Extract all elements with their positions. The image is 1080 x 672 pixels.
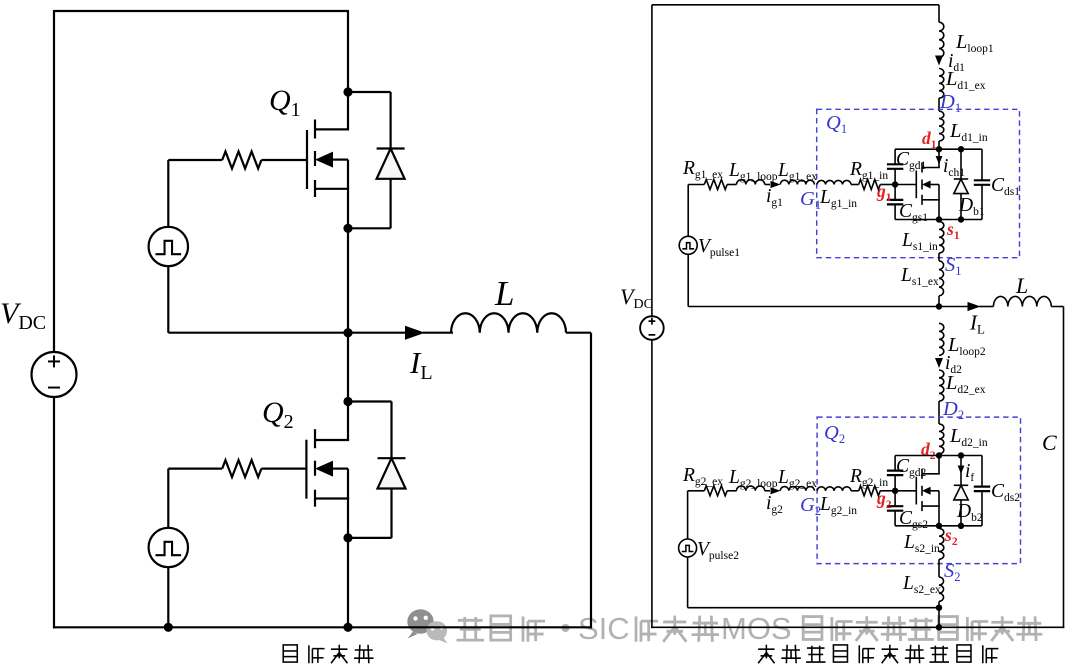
wire: Q1 diode branch bottom	[348, 179, 391, 229]
wire: R_g1_ex to L_g1_loop	[727, 184, 736, 186]
arrow i_d2	[935, 358, 943, 368]
wire: Q2 pulse source upper leg	[167, 469, 169, 528]
node: gate junction 1	[892, 181, 898, 187]
inductor L_s1_ex	[939, 261, 944, 296]
inductor L_d1_in	[939, 111, 944, 141]
transistor M1 source lead	[938, 185, 940, 220]
svg-text:C: C	[1042, 430, 1057, 455]
watermark SIC	[578, 611, 630, 646]
caption 半桥拓扑 (left)	[283, 645, 373, 664]
label g1 (red)	[876, 181, 892, 204]
label I_L (right circuit)	[969, 311, 985, 337]
label i_d1	[948, 51, 965, 74]
wire: Q2 diode branch top	[348, 402, 392, 459]
node: V_pulse2 return junction	[936, 605, 942, 611]
label L_loop2	[947, 334, 986, 358]
transistor Q1 body arrow	[315, 152, 348, 168]
label L_d2_in	[949, 425, 988, 449]
label Q2	[262, 396, 294, 433]
inductor L_g1_in	[817, 180, 851, 184]
node: Q1 source junction	[343, 224, 352, 233]
label Q1	[269, 84, 301, 121]
svg-text:L: L	[1015, 273, 1028, 298]
inductor L_d1_ex	[939, 69, 944, 99]
transistor M2 source lead	[938, 491, 940, 526]
watermark 公众号	[457, 616, 546, 642]
wire: C_ds branch lower 2	[981, 491, 983, 526]
wire: L_s2_in to L_s2_ex	[938, 559, 940, 577]
label V_DC (right circuit)	[620, 284, 653, 312]
label L_loop1	[955, 31, 994, 55]
wire: Q1 gate wire left	[168, 159, 222, 161]
wire: Q2 gate wire right	[261, 468, 306, 470]
wire: gate node to gate bar 1	[895, 184, 916, 186]
inductor L_s1_in	[939, 222, 944, 254]
transistor Q1 drain lead	[315, 92, 349, 129]
wire: Q2 gate wire left	[168, 468, 222, 470]
wire: trunk top	[938, 5, 940, 22]
resistor R_g1_ex	[704, 180, 727, 190]
wire: Q1 pulse source lower leg	[168, 266, 348, 333]
node: Q1 drain junction	[343, 87, 352, 96]
label Q2 (blue)	[824, 422, 845, 446]
wire: left circuit bottom rail	[53, 626, 592, 628]
diode D1 body (Q1 antiparallel)	[377, 149, 405, 179]
wire: gate-source leg 1	[894, 204, 896, 219]
node: diode bottom junction 2	[958, 523, 964, 529]
node: left circuit midpoint junction	[343, 328, 352, 337]
wire: arrow to inductor	[423, 332, 453, 334]
inductor L_g2_ex	[780, 487, 814, 491]
node: diode top junction 2	[958, 452, 964, 458]
label g2 (red)	[876, 488, 892, 511]
label L (left circuit)	[494, 274, 514, 313]
resistor R_g2_ex	[704, 486, 727, 496]
wire: drain lead 1	[938, 149, 940, 167]
label R_g2_in	[849, 466, 888, 489]
label V_pulse1	[698, 236, 740, 259]
resistor R_g1_in	[859, 180, 881, 190]
label d1 (red)	[922, 128, 937, 151]
wire: L_s2_ex to return node	[938, 601, 940, 607]
transistor M1 body arrow	[922, 181, 939, 189]
wire: V_pulse1 return to midpoint	[688, 306, 939, 308]
transistor M1 gate bar	[915, 171, 917, 199]
pulse source (Q2 gate drive)	[149, 528, 188, 567]
node: s junction 1	[936, 216, 942, 222]
diode D2 body (Q2 antiparallel)	[378, 458, 406, 488]
transistor Q2 body arrow	[315, 461, 348, 477]
wire: right circuit left rail lower	[651, 339, 653, 628]
wire: gate node to gate bar 2	[895, 490, 916, 492]
label C_gs2	[899, 508, 928, 531]
wire: Q1 diode branch top	[348, 92, 391, 149]
resistor Q2 gate	[222, 460, 261, 477]
wire: right circuit right rail	[1063, 307, 1065, 629]
node: diode bottom junction 1	[958, 216, 964, 222]
wire: R_g2_in to gate node	[880, 490, 895, 492]
voltage source V_DC (left circuit)	[32, 352, 77, 397]
capacitor C_gd2	[887, 471, 903, 476]
label V_pulse2	[697, 539, 739, 562]
node: Q2 source junction	[343, 533, 352, 542]
label L_d1_in	[949, 120, 988, 144]
wire: midpoint to load arrow	[348, 332, 410, 334]
wire: drain lead 2	[938, 456, 940, 474]
capacitor C_gd1	[887, 164, 903, 169]
resistor R_g2_in	[859, 486, 881, 496]
label C (right circuit)	[1042, 430, 1057, 455]
label C_ds1	[991, 175, 1020, 198]
wire: model top rail 1	[895, 148, 982, 150]
node: Q2 pulse return junction	[164, 623, 173, 632]
label D_b2	[956, 501, 983, 524]
label L_d1_ex	[945, 68, 986, 92]
wire: diode branch upper 1	[960, 149, 962, 179]
label G1 (blue)	[800, 188, 821, 212]
wire: to gate node 2	[894, 475, 896, 506]
node: d junction 2	[936, 452, 942, 458]
label D2 (blue)	[942, 398, 964, 422]
label I_L (left circuit)	[409, 345, 433, 384]
label R_g1_ex	[682, 158, 723, 181]
wire: to arrow i_g1	[765, 184, 770, 186]
wire: gate2 lead-in	[688, 490, 705, 492]
transistor M1 source stub	[922, 199, 940, 201]
label s1 (red)	[946, 219, 960, 242]
inductor L (right circuit load)	[993, 296, 1051, 306]
wire: gate-drain leg 2	[894, 456, 896, 471]
transistor Q2 gate bar	[305, 440, 307, 499]
transistor Q2 source lead	[315, 469, 349, 538]
label i_g1	[766, 186, 783, 209]
transistor Q1 source lead	[315, 160, 349, 229]
inductor L_g1_ex	[780, 180, 814, 184]
svg-text:MOS: MOS	[721, 611, 792, 646]
wire: R_g1_in to gate node	[880, 184, 895, 186]
wire: L_s1_in to L_s1_ex	[938, 253, 940, 261]
node: Q2 source bottom junction	[343, 623, 352, 632]
node: s junction 2	[936, 523, 942, 529]
wire: L_g2_in to R_g2_in	[851, 490, 859, 492]
arrow i_d1	[935, 56, 943, 66]
label L_g1_loop	[728, 160, 778, 183]
label L_g2_loop	[728, 467, 778, 490]
capacitor C_ds2	[974, 487, 990, 492]
wire: midpoint to arrow	[939, 306, 968, 308]
arrow I_L (right circuit)	[968, 302, 981, 311]
transistor M2 gate bar	[915, 477, 917, 505]
label V_DC (left circuit)	[0, 297, 46, 334]
node: right circuit midpoint	[936, 303, 942, 309]
wire: diode branch lower 1	[960, 194, 962, 220]
label S2 (blue)	[944, 560, 961, 584]
transistor M2 drain stub	[922, 473, 940, 475]
label L_g1_ex	[777, 160, 817, 183]
wire: L_g1_in to R_g1_in	[851, 184, 859, 186]
wire: V_pulse1 lower leg	[687, 254, 689, 306]
pulse source V_pulse1	[679, 236, 697, 254]
wire: left circuit left rail lower	[53, 397, 55, 628]
wire: to gate node 1	[894, 169, 896, 200]
wire: Q1 pulse source upper leg	[167, 160, 169, 227]
wire: Q2 pulse source lower leg	[167, 567, 169, 627]
dashed box Q1	[817, 109, 1020, 257]
watermark MOS	[721, 611, 792, 646]
label R_g2_ex	[682, 465, 723, 488]
wire: trunk to L_d2_in	[938, 401, 940, 424]
arrow I_L (left circuit)	[405, 326, 425, 340]
capacitor C_ds1	[974, 180, 990, 185]
label i_d2	[945, 353, 962, 376]
dashed box Q2	[817, 417, 1020, 563]
voltage source V_DC (right circuit)	[640, 316, 664, 340]
node: gate junction 2	[892, 488, 898, 494]
wire: R_g2_ex to L_g2_loop	[727, 490, 736, 492]
wire: C_ds branch upper 2	[981, 456, 983, 487]
label L_s1_in	[901, 230, 938, 253]
wire: V_pulse2 upper leg	[687, 491, 689, 539]
resistor Q1 gate	[222, 152, 261, 169]
inductor L_loop1	[939, 22, 944, 57]
label D1 (blue)	[939, 91, 961, 115]
inductor L_s2_ex	[939, 577, 944, 601]
capacitor C_gs2	[887, 506, 903, 511]
wire: trunk to d2	[938, 454, 940, 456]
wire: Q1 drain from top rail	[347, 11, 349, 92]
transistor M2 body arrow	[922, 487, 939, 495]
label i_f	[965, 461, 974, 484]
wire: trunk to bottom rail	[938, 608, 940, 628]
wire: V_pulse2 lower leg	[687, 557, 689, 608]
label L_g2_in	[819, 494, 857, 517]
label i_ch1	[943, 156, 965, 179]
arrow i_g2	[771, 487, 781, 494]
transistor Q1 channel segments	[314, 120, 316, 198]
label L_d2_ex	[945, 372, 986, 396]
label C_gs1	[899, 201, 928, 224]
label C_ds2	[991, 481, 1020, 504]
label G2 (blue)	[800, 494, 821, 518]
wire: gate-drain leg 1	[894, 149, 896, 164]
wire: Q2 diode branch bottom	[348, 489, 392, 538]
transistor M2 channel segments	[921, 469, 923, 511]
wire: diode branch lower 2	[960, 500, 962, 526]
arrow i_f	[958, 466, 965, 475]
inductor L_g2_loop	[737, 486, 765, 491]
node: d junction 1	[936, 146, 942, 152]
watermark 管及功率模块的应用	[803, 616, 1042, 641]
capacitor C_gs1	[887, 200, 903, 205]
label d2 (red)	[921, 439, 936, 462]
wire: trunk to d1	[938, 141, 940, 149]
wire: V_pulse2 return	[688, 607, 939, 609]
label D_b1	[958, 195, 985, 218]
pulse source V_pulse2	[679, 539, 697, 557]
label L_s2_ex	[902, 573, 941, 596]
pulse source (Q1 gate drive)	[149, 227, 188, 266]
diode D_b1	[954, 179, 968, 194]
transistor M1 channel segments	[921, 163, 923, 205]
label C_gd2	[896, 456, 927, 479]
wire: C_ds branch upper 1	[981, 149, 983, 180]
label S1 (blue)	[945, 254, 962, 278]
wire: right circuit bottom rail	[651, 626, 1064, 628]
label i_g2	[766, 493, 783, 516]
svg-text:L: L	[494, 274, 514, 313]
inductor L_g1_loop	[737, 180, 765, 185]
svg-text:SIC: SIC	[578, 611, 630, 646]
wire: L_s1_ex to midpoint	[938, 296, 940, 307]
inductor L (left circuit load)	[451, 313, 566, 332]
transistor M1 drain stub	[922, 167, 940, 169]
wire: right circuit left rail upper	[651, 5, 653, 317]
wire: left circuit top rail	[54, 10, 349, 12]
wire: gate1 lead-in	[688, 184, 704, 186]
inductor L_g2_in	[817, 487, 851, 491]
transistor Q2 drain lead	[315, 402, 349, 441]
wire: trunk between	[938, 98, 940, 111]
label L (right circuit)	[1015, 273, 1028, 298]
transistor M2 source stub	[922, 505, 940, 507]
label Q1 (blue)	[826, 112, 847, 136]
diode D_b2	[954, 485, 968, 500]
watermark logo	[407, 609, 447, 643]
inductor L_d2_ex	[939, 370, 944, 401]
wire: left circuit right rail	[590, 333, 592, 629]
node: Q2 drain junction	[343, 397, 352, 406]
wire: C_ds branch lower 1	[981, 185, 983, 220]
label s2 (red)	[944, 525, 958, 548]
wire: inductor to right rail	[566, 332, 591, 334]
label R_g1_in	[849, 159, 888, 182]
inductor L_d2_in	[939, 424, 944, 454]
watermark 碳化硅	[636, 616, 719, 642]
wire: load inductor to right rail	[1051, 306, 1063, 308]
watermark dot	[562, 624, 570, 632]
arrow i channel 1	[936, 156, 943, 165]
arrow i_g1	[771, 181, 781, 188]
wire: midpoint to Q2 drain	[347, 333, 349, 402]
caption 标注详细寄生参数拓扑 (right)	[758, 645, 998, 664]
node: diode top junction 1	[958, 146, 964, 152]
wire: gate-source leg 2	[894, 511, 896, 526]
label L_g1_in	[819, 187, 857, 210]
wire: left circuit left rail upper	[53, 10, 55, 352]
wire: model bottom rail 1	[895, 219, 982, 221]
label C_gd1	[896, 149, 927, 172]
wire: right circuit top rail	[652, 4, 939, 6]
wire: V_pulse1 upper leg	[687, 185, 689, 237]
wire: Q1 gate wire right	[261, 159, 307, 161]
wire: to arrow i_g2	[765, 490, 770, 492]
wire: arrow to load inductor	[979, 306, 993, 308]
transistor Q1 gate bar	[306, 130, 308, 189]
label L_s1_ex	[900, 265, 939, 288]
wire: diode branch upper 2	[960, 456, 962, 486]
transistor Q2 channel segments	[314, 429, 316, 507]
inductor L_loop2	[939, 323, 944, 355]
wire: Q1 source to midpoint	[347, 228, 349, 332]
label L_g2_ex	[777, 467, 817, 490]
wire: model top rail 2	[895, 455, 982, 457]
wire: Q2 source to bottom rail	[347, 538, 349, 627]
label L_s2_in	[903, 532, 940, 555]
inductor L_s2_in	[939, 528, 944, 559]
wire: model bottom rail 2	[895, 525, 982, 527]
node: trunk bottom junction	[936, 624, 942, 630]
